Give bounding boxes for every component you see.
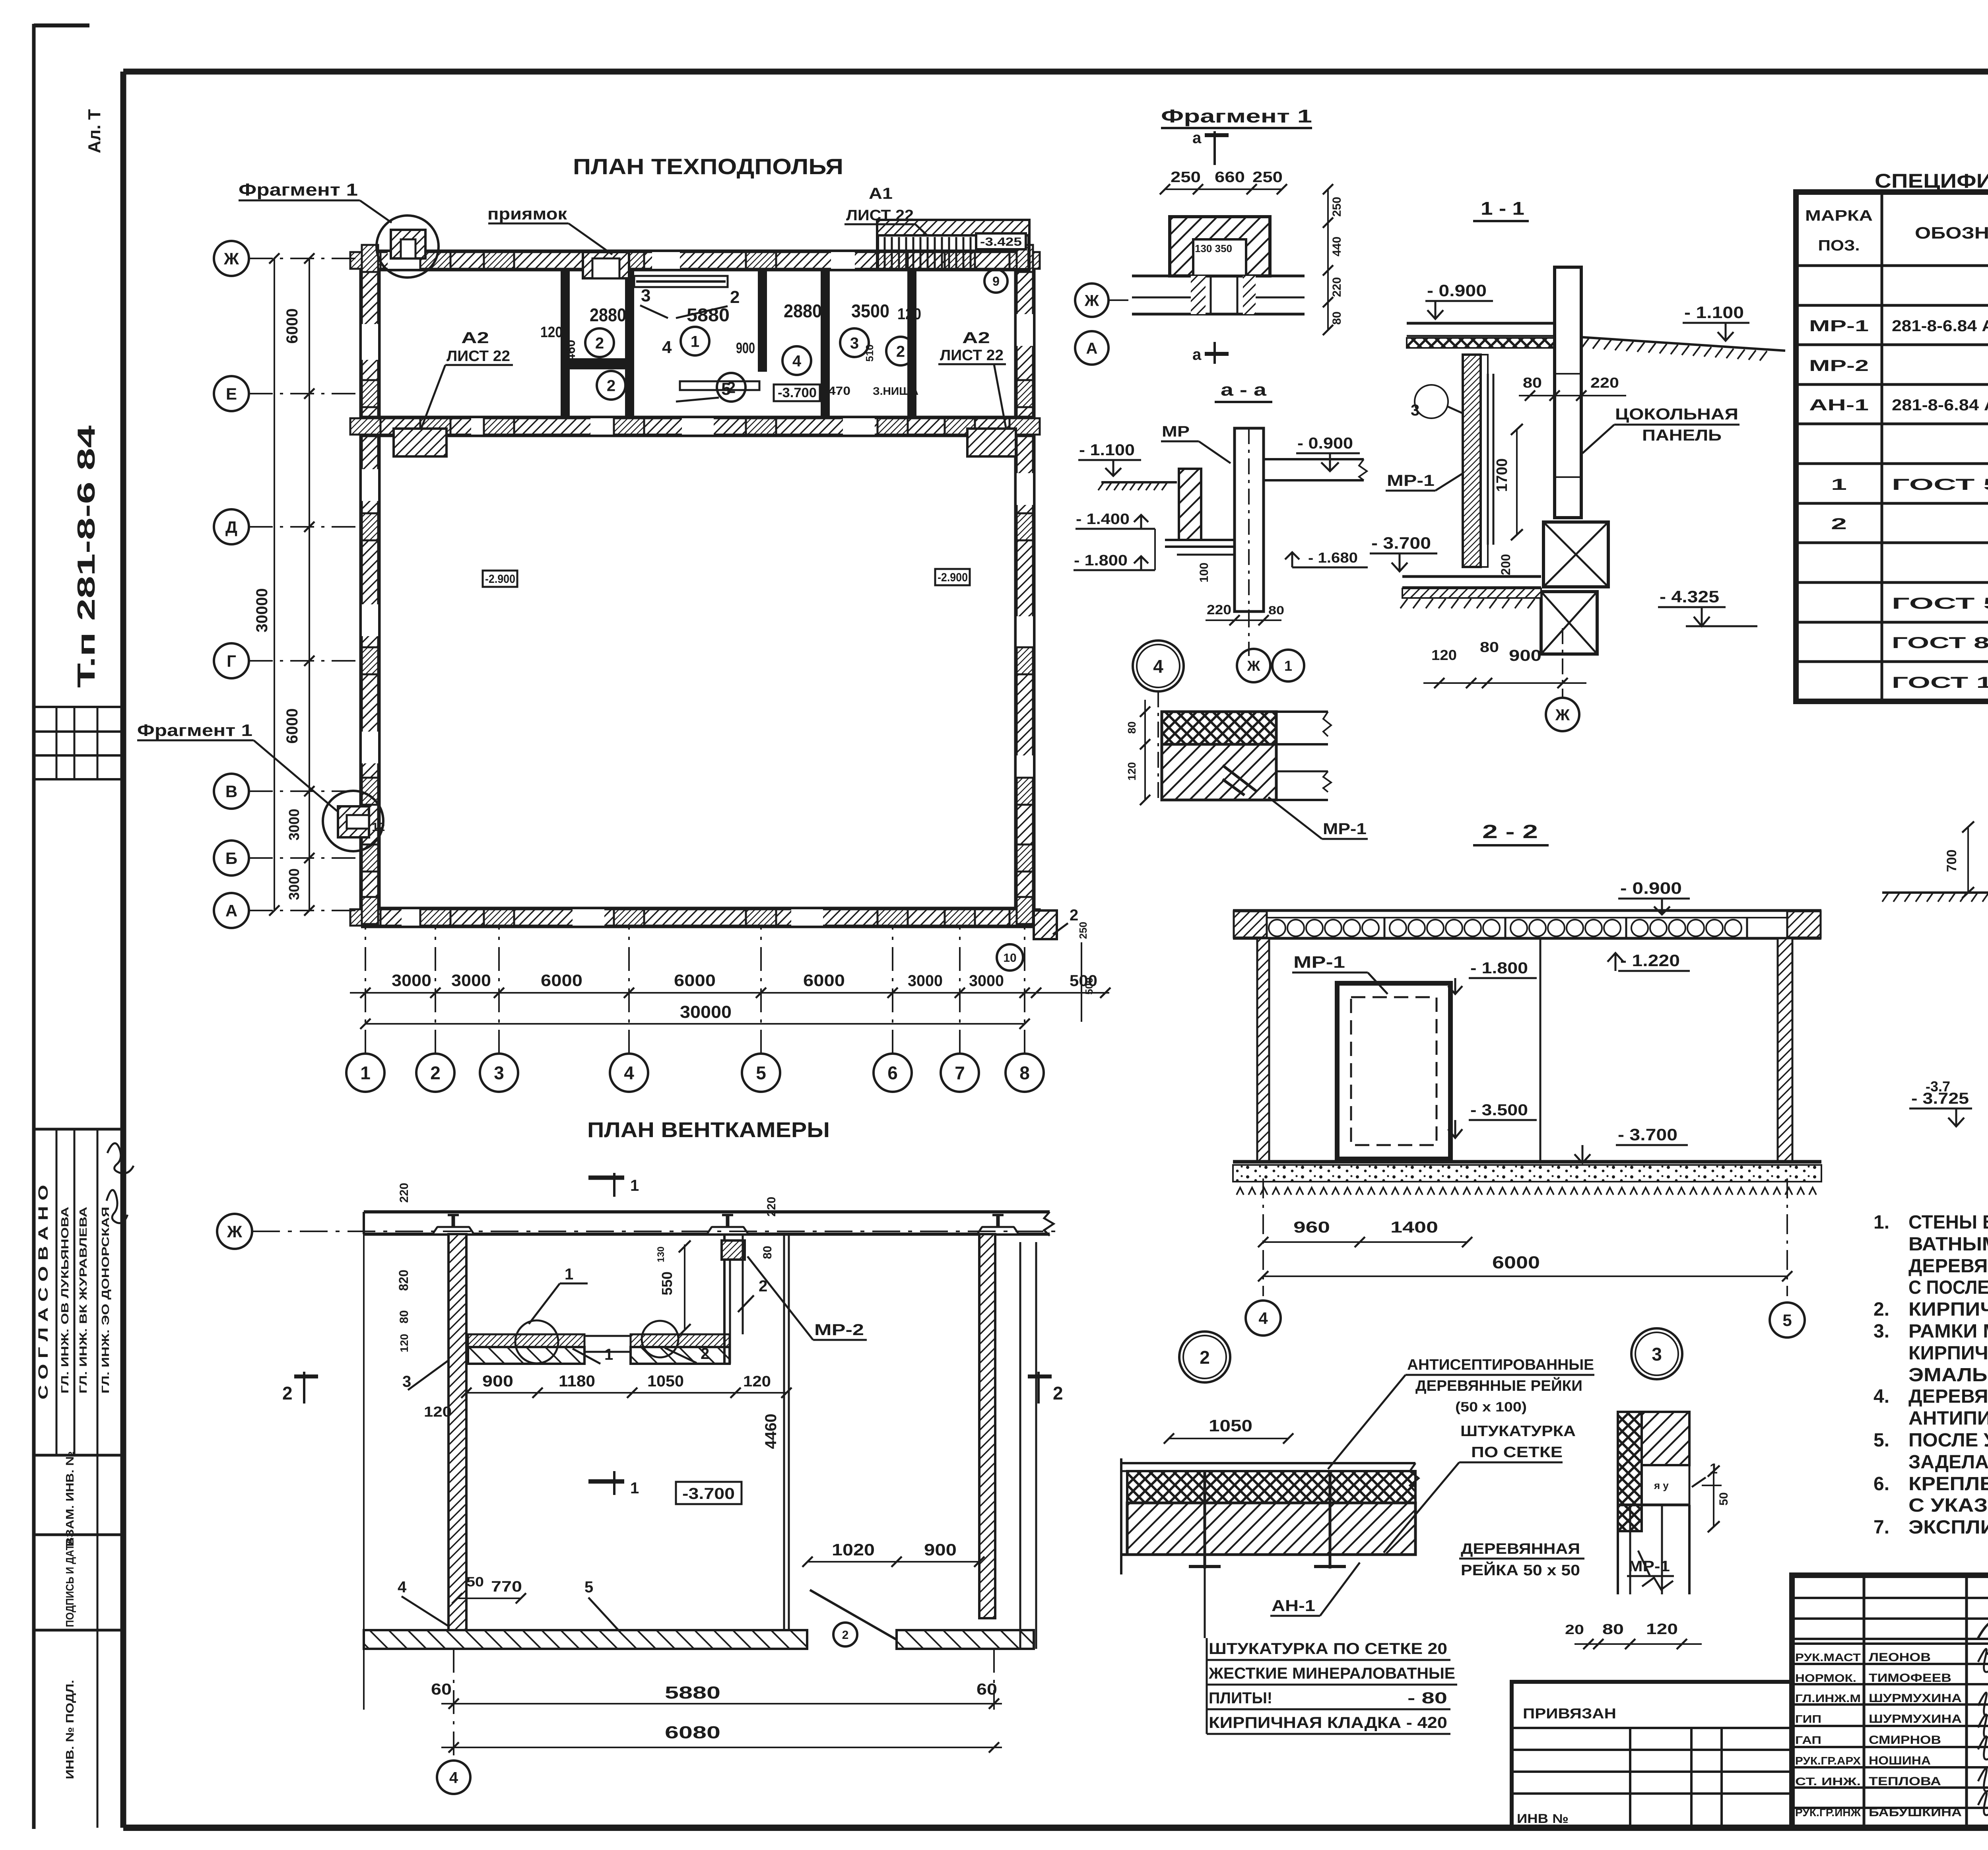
svg-text:3000: 3000 [908,972,943,990]
svg-text:2: 2 [701,1345,709,1363]
right rotated dims [1327,189,1329,330]
svg-text:4: 4 [398,1578,407,1596]
svg-text:80: 80 [761,1246,774,1259]
bottom dims [1206,619,1281,621]
svg-text:1 - 1: 1 - 1 [1481,198,1524,219]
svg-text:А: А [1086,340,1098,357]
svg-text:60: 60 [431,1681,452,1698]
svg-text:МР: МР [1162,423,1190,440]
svg-text:НОШИНА: НОШИНА [1869,1754,1931,1767]
svg-text:-3.700: -3.700 [778,385,817,400]
svg-text:1050: 1050 [1209,1416,1252,1435]
svg-text:900: 900 [736,340,755,357]
svg-text:ПЛАН ТЕХПОДПОЛЬЯ: ПЛАН ТЕХПОДПОЛЬЯ [573,154,843,179]
svg-text:10: 10 [1003,951,1016,965]
svg-text:80: 80 [1268,604,1284,617]
svg-text:5: 5 [721,379,731,399]
svg-text:6000: 6000 [1492,1253,1540,1272]
svg-text:470: 470 [828,384,850,398]
svg-text:- 1.220: - 1.220 [1620,951,1680,970]
svg-text:5.: 5. [1873,1430,1889,1451]
svg-text:МР-1: МР-1 [1293,953,1345,971]
walls [1257,938,1269,1162]
svg-text:1050: 1050 [647,1372,684,1390]
svg-text:А1: А1 [869,185,893,202]
svg-text:СТЕНЫ ВНУТРИ КАМЕРЫ ИЗОЛИРУ: СТЕНЫ ВНУТРИ КАМЕРЫ ИЗОЛИРУЮТСЯ ЖЕСТКИМИ… [1908,1212,1988,1233]
svg-text:а: а [1192,346,1202,363]
svg-text:ГАП: ГАП [1795,1734,1821,1746]
foundation blocks [1543,522,1608,587]
svg-text:ИНВ. № ПОДЛ.: ИНВ. № ПОДЛ. [64,1680,76,1779]
ground left [1882,891,1988,894]
svg-text:120: 120 [398,1334,410,1353]
svg-text:3500: 3500 [851,301,889,321]
left axis circles and dims [214,241,249,276]
svg-text:130 350: 130 350 [1195,243,1232,254]
svg-text:2: 2 [595,334,604,352]
svg-text:2: 2 [730,287,740,307]
svg-text:АНТИСЕПТИРОВАННЫЕ: АНТИСЕПТИРОВАННЫЕ [1407,1357,1594,1373]
bottom-right corner block [1034,910,1057,939]
svg-text:1: 1 [360,1063,371,1083]
svg-text:1020: 1020 [832,1540,875,1559]
svg-text:3000: 3000 [286,868,302,900]
floor slab right [1264,458,1364,460]
svg-text:- 3.700: - 3.700 [1618,1125,1677,1144]
svg-text:1: 1 [1831,476,1847,493]
svg-text:Ал. Т: Ал. Т [85,109,104,153]
svg-text:- 0.900: - 0.900 [1297,435,1353,452]
svg-text:ПОСЛЕ УСТАНОВКИ ОБОРУДОВАНИЯ: ПОСЛЕ УСТАНОВКИ ОБОРУДОВАНИЯ ЗАЗОРЫ ПРОЕ… [1908,1430,1988,1451]
svg-text:2880: 2880 [590,305,626,325]
floor [1233,1160,1821,1164]
svg-text:- 0.900: - 0.900 [1427,281,1487,300]
svg-text:1460: 1460 [563,340,578,368]
svg-text:5: 5 [1782,1311,1792,1330]
svg-text:РУК.ГР.ИНЖ: РУК.ГР.ИНЖ [1795,1806,1861,1819]
svg-text:КРЕПЛЕНИЕ УТЕПЛИТЕЛЯ ПРОИЗВО: КРЕПЛЕНИЕ УТЕПЛИТЕЛЯ ПРОИЗВОДИТЬ В СООТВ… [1908,1473,1988,1495]
svg-text:6: 6 [887,1063,898,1083]
svg-text:3: 3 [850,334,859,352]
svg-text:2: 2 [1070,907,1078,924]
svg-text:2: 2 [1200,1347,1210,1368]
svg-text:-2.900: -2.900 [938,571,968,584]
svg-text:- 3.725: - 3.725 [1911,1090,1969,1107]
svg-text:6000: 6000 [803,971,845,990]
stair blocks on axis E [394,429,447,456]
svg-text:Д: Д [225,518,237,536]
svg-text:ПАНЕЛЬ: ПАНЕЛЬ [1642,427,1722,444]
svg-text:6000: 6000 [674,971,716,990]
svg-text:2: 2 [607,377,615,394]
svg-text:2: 2 [282,1383,293,1404]
svg-text:900: 900 [924,1540,957,1559]
svg-text:МР-1: МР-1 [1809,317,1869,335]
svg-text:-2.900: -2.900 [485,573,515,586]
svg-text:ЭКСПЛИКАЦИЮ ОТВЕРСТИЙ СМ. Л: ЭКСПЛИКАЦИЮ ОТВЕРСТИЙ СМ. ЛИСТ 7 [1908,1516,1988,1538]
detail 4 callout [1133,641,1184,691]
svg-text:АН-1: АН-1 [1809,396,1869,414]
svg-text:А2: А2 [962,329,990,347]
svg-text:3000: 3000 [451,971,491,990]
hollow core slab band [1233,909,1821,912]
ground line left [1101,481,1177,483]
svg-text:1700: 1700 [1494,458,1510,492]
svg-text:Ж: Ж [1247,658,1260,674]
svg-text:С ПОСЛЕДУЮЩЕЙ ШТУКАТУРКОЙ ПО: С ПОСЛЕДУЮЩЕЙ ШТУКАТУРКОЙ ПО СЕТКЕ [1908,1276,1988,1298]
svg-text:а - а: а - а [1221,380,1267,400]
bottom axis circles and dims [346,1054,384,1092]
svg-text:БАБУШКИНА: БАБУШКИНА [1869,1806,1962,1819]
svg-text:6.: 6. [1873,1473,1889,1495]
svg-text:МР-2: МР-2 [814,1321,864,1339]
svg-text:РАМКИ МР УСТАНОВИТЬ ОДНОВРЕ: РАМКИ МР УСТАНОВИТЬ ОДНОВРЕМЕННО С КЛАДК… [1908,1320,1988,1342]
svg-text:ШУРМУХИНА: ШУРМУХИНА [1869,1712,1962,1726]
circled room numbers [585,328,614,357]
svg-text:220: 220 [1590,375,1619,391]
svg-text:ГОСТ 8486-66**: ГОСТ 8486-66** [1892,634,1988,652]
svg-text:КИРПИЧНЫХ СТЕН, ОГРУНТОВАТЬ: КИРПИЧНЫХ СТЕН, ОГРУНТОВАТЬ ЗА 2 РАЗА И … [1908,1343,1988,1364]
svg-text:4: 4 [792,352,802,370]
svg-text:ШУРМУХИНА: ШУРМУХИНА [1869,1692,1962,1705]
svg-text:120: 120 [897,305,921,323]
wall piers [350,252,381,269]
svg-text:80: 80 [1330,311,1343,324]
svg-text:6000: 6000 [283,709,301,744]
svg-text:ШТУКАТУРКА ПО СЕТКЕ 20: ШТУКАТУРКА ПО СЕТКЕ 20 [1209,1640,1447,1658]
svg-text:ЖЕСТКИЕ МИНЕРАЛОВАТНЫЕ: ЖЕСТКИЕ МИНЕРАЛОВАТНЫЕ [1208,1665,1455,1682]
svg-text:Т.п 281-8-6 84: Т.п 281-8-6 84 [73,425,100,688]
svg-text:1: 1 [1284,658,1292,674]
svg-text:ПОДПИСЬ И ДАТА: ПОДПИСЬ И ДАТА [64,1538,76,1627]
svg-text:ШТУКАТУРКА: ШТУКАТУРКА [1460,1423,1576,1440]
svg-text:2 - 2: 2 - 2 [1482,821,1538,842]
svg-text:Фрагмент 1: Фрагмент 1 [137,721,252,740]
svg-text:ГЛ. ИНЖ. ВК ЖУРАВЛЕВА: ГЛ. ИНЖ. ВК ЖУРАВЛЕВА [77,1207,89,1394]
level boxes [774,384,820,401]
svg-text:2: 2 [842,1629,849,1642]
svg-text:7: 7 [955,1063,965,1083]
svg-text:220: 220 [765,1197,778,1217]
svg-text:- 1.400: - 1.400 [1076,511,1130,528]
svg-text:5: 5 [756,1063,766,1083]
svg-text:Ж: Ж [1555,706,1570,724]
svg-text:50: 50 [1717,1492,1730,1505]
frame MR-1 [1337,983,1450,1159]
svg-text:МАРКА: МАРКА [1805,208,1873,224]
svg-text:СПЕЦИФИКАЦИЯ МАТЕРИАЛОВ НА: СПЕЦИФИКАЦИЯ МАТЕРИАЛОВ НА ВЕНТКАМЕРУ [1875,170,1988,192]
wall white gaps [388,252,423,269]
svg-text:ЗАДЕЛАТЬ БЕТОНОМ НА МЕЛКОМ: ЗАДЕЛАТЬ БЕТОНОМ НА МЕЛКОМ ЩЕБНЕ. [1908,1452,1988,1473]
svg-text:3000: 3000 [286,809,302,841]
interior dims [466,1392,786,1394]
svg-text:Е: Е [226,384,237,403]
svg-text:500: 500 [1083,977,1095,994]
svg-text:ТИМОФЕЕВ: ТИМОФЕЕВ [1869,1671,1951,1685]
svg-text:4: 4 [662,338,672,357]
svg-text:220: 220 [398,1183,411,1203]
svg-text:В: В [225,782,237,801]
svg-text:- 3.700: - 3.700 [1371,534,1431,552]
svg-text:З.НИША: З.НИША [873,385,918,397]
detail 2 drawing: floor slab with insulation [1121,1462,1415,1464]
svg-text:80: 80 [1602,1621,1624,1637]
svg-text:2: 2 [896,343,905,360]
svg-text:30000: 30000 [680,1002,732,1022]
svg-text:900: 900 [482,1372,513,1390]
svg-text:ВЗАМ. ИНВ. №: ВЗАМ. ИНВ. № [64,1451,76,1547]
sheet frame [32,24,36,1829]
svg-text:1: 1 [604,1346,613,1363]
svg-text:Фрагмент 1: Фрагмент 1 [239,180,358,200]
svg-text:1180: 1180 [559,1372,595,1390]
svg-text:2880: 2880 [784,301,822,321]
svg-text:Фрагмент 1: Фрагмент 1 [1161,106,1312,126]
svg-text:3000: 3000 [392,971,431,990]
svg-text:550: 550 [659,1272,675,1295]
svg-text:30000: 30000 [253,588,271,632]
svg-text:100: 100 [1198,563,1211,582]
svg-text:80: 80 [1126,721,1138,734]
svg-text:- 1.680: - 1.680 [1308,549,1358,566]
svg-text:6080: 6080 [665,1723,720,1742]
svg-text:ПРИВЯЗАН: ПРИВЯЗАН [1523,1705,1616,1722]
svg-text:АН-1: АН-1 [1272,1597,1315,1615]
svg-text:- 1.100: - 1.100 [1079,441,1135,459]
svg-text:1: 1 [691,333,699,350]
svg-text:660: 660 [1215,169,1245,186]
svg-text:ГОСТ 10140-80: ГОСТ 10140-80 [1892,674,1988,691]
svg-text:4: 4 [1258,1309,1268,1328]
axis circles [1075,283,1109,317]
svg-text:12: 12 [372,821,385,834]
axis Ж line and circle [252,1231,1058,1232]
svg-text:770: 770 [491,1578,522,1595]
hatched pit block [1170,217,1270,276]
svg-text:ЦОКОЛЬНАЯ: ЦОКОЛЬНАЯ [1615,406,1738,423]
svg-text:а: а [1192,129,1202,147]
svg-text:ГОСТ 5781-82: ГОСТ 5781-82 [1892,476,1988,493]
title block [1792,1575,1988,1828]
fragment circle at top [377,215,439,278]
svg-text:- 1.800: - 1.800 [1074,552,1128,569]
priyamok shaft [583,252,629,278]
svg-text:80: 80 [1480,639,1499,655]
svg-text:5: 5 [584,1578,593,1596]
svg-text:9: 9 [992,274,1000,289]
svg-text:ИНВ №: ИНВ № [1517,1811,1569,1826]
privyazan table [1512,1682,1792,1828]
svg-text:6000: 6000 [541,971,582,990]
svg-text:НОРМОК.: НОРМОК. [1795,1672,1856,1684]
detail 4 drawing: wall corner with insulation [1162,712,1276,744]
section marks 1 and 2 [613,1173,615,1197]
svg-text:4: 4 [624,1063,634,1083]
zokolnaya panel [1555,267,1581,518]
svg-text:Г: Г [227,652,236,670]
svg-text:20: 20 [1565,1622,1584,1637]
svg-text:МР-1: МР-1 [1323,820,1367,838]
svg-text:МР-1: МР-1 [1387,472,1435,489]
svg-text:250: 250 [1171,169,1201,186]
svg-text:Ж: Ж [1084,292,1099,309]
svg-text:7.: 7. [1873,1517,1889,1538]
svg-text:281-8-6.84 АС1 И2-03 00: 281-8-6.84 АС1 И2-03 00 [1892,396,1988,414]
svg-text:ГОСТ 5336-80: ГОСТ 5336-80 [1892,595,1988,612]
svg-text:ЛЕОНОВ: ЛЕОНОВ [1869,1651,1931,1664]
svg-text:МР-2: МР-2 [1809,357,1869,375]
building outer walls [361,251,1034,270]
svg-text:ГЛ. ИНЖ. ОВ ЛУКЬЯНОВА: ГЛ. ИНЖ. ОВ ЛУКЬЯНОВА [59,1207,71,1394]
svg-text:4: 4 [1153,656,1163,677]
svg-text:3: 3 [641,286,650,305]
svg-text:281-8-6.84 АС1. И2-04 00: 281-8-6.84 АС1. И2-04 00 [1892,317,1988,335]
svg-text:250: 250 [1330,197,1343,217]
detail 3 callout [1631,1328,1682,1379]
svg-text:ВАТНЫМИ ПЛИТАМИ ТОЛЩИНОЙ 40 М: ВАТНЫМИ ПЛИТАМИ ТОЛЩИНОЙ 40 ММ 8=300 КГ/… [1908,1233,1988,1255]
svg-text:440: 440 [1330,237,1343,256]
svg-text:ПО СЕТКЕ: ПО СЕТКЕ [1471,1444,1563,1461]
svg-text:РУК.МАСТ: РУК.МАСТ [1795,1651,1861,1664]
detail 2 callout [1179,1332,1230,1382]
svg-text:120: 120 [424,1404,452,1420]
svg-text:- 1.800: - 1.800 [1470,959,1528,977]
svg-text:6000: 6000 [283,309,301,344]
svg-text:700: 700 [1944,850,1959,872]
svg-text:- 4.325: - 4.325 [1660,587,1719,606]
svg-text:ЭМАЛЬЮ В ЧЕРНЫЙ ЦВЕТ (: ЭМАЛЬЮ В ЧЕРНЫЙ ЦВЕТ ( ПХВ-25 ЧЕРНАЯ ГОС… [1908,1364,1988,1386]
svg-text:3000: 3000 [969,972,1004,990]
svg-text:250: 250 [1077,922,1089,939]
svg-text:ЛИСТ 22: ЛИСТ 22 [447,348,510,365]
svg-text:-3.425: -3.425 [980,235,1022,248]
svg-text:ДЕРЕВЯННЫЕ РЕЙКИ: ДЕРЕВЯННЫЕ РЕЙКИ [1415,1376,1582,1394]
detail 3 drawing: wall corner [1618,1412,1642,1531]
svg-text:1: 1 [630,1479,639,1497]
svg-text:ПЛИТЫ!: ПЛИТЫ! [1209,1689,1272,1707]
svg-text:4: 4 [449,1769,458,1786]
svg-text:130: 130 [656,1246,666,1262]
svg-text:(50 х 100): (50 х 100) [1455,1400,1527,1415]
inner wall with insulation [1463,355,1481,567]
svg-text:5880: 5880 [665,1683,720,1702]
svg-text:СМИРНОВ: СМИРНОВ [1869,1734,1941,1747]
svg-text:220: 220 [1207,602,1231,617]
svg-text:900: 900 [1509,647,1541,664]
svg-text:3: 3 [1652,1344,1662,1365]
bottom dims [1263,1241,1467,1243]
ceiling slab band [364,1210,1050,1213]
svg-text:120: 120 [1646,1621,1678,1638]
svg-text:Ж: Ж [223,249,239,268]
wall band [1132,275,1305,278]
svg-text:120: 120 [540,324,563,341]
svg-text:80: 80 [398,1310,411,1323]
vent chamber walls [448,1234,466,1649]
svg-text:С О Г Л А С О В А Н О: С О Г Л А С О В А Н О [36,1185,51,1400]
svg-text:1400: 1400 [1390,1219,1438,1236]
svg-text:8: 8 [1019,1063,1030,1083]
ground line right [1582,337,1785,351]
svg-text:РУК.ГР.АРХ: РУК.ГР.АРХ [1795,1755,1861,1767]
svg-text:Ж: Ж [227,1222,243,1241]
svg-text:250: 250 [1252,169,1283,186]
svg-text:820: 820 [396,1270,411,1291]
svg-text:СТ. ИНЖ.: СТ. ИНЖ. [1795,1775,1861,1788]
svg-text:3: 3 [494,1063,504,1083]
svg-text:А2: А2 [461,329,489,347]
svg-text:1: 1 [565,1266,573,1283]
column [1235,428,1264,611]
interior partitions [561,270,570,417]
signatures [1978,1649,1988,1678]
svg-text:С УКАЗАНИЯМИ СЕРИИ , 2.290: С УКАЗАНИЯМИ СЕРИИ , 2.290-4 ВЫП.1 [1908,1495,1988,1516]
svg-text:ГЛ. ИНЖ. ЭО ДОНОРСКАЯ: ГЛ. ИНЖ. ЭО ДОНОРСКАЯ [99,1207,111,1394]
svg-text:50: 50 [466,1574,484,1590]
svg-text:КИРПИЧНАЯ КЛАДКА ИЗ КИРПИЧА: КИРПИЧНАЯ КЛАДКА ИЗ КИРПИЧА М75 НА РАСТВ… [1908,1299,1988,1320]
door and right dims [808,1561,979,1563]
svg-text:приямок: приямок [487,204,567,223]
svg-text:- 1.100: - 1.100 [1684,303,1744,322]
svg-text:4.: 4. [1873,1386,1889,1407]
svg-text:- 3.500: - 3.500 [1470,1101,1528,1119]
svg-text:3.: 3. [1873,1321,1889,1342]
svg-text:960: 960 [1293,1219,1330,1236]
svg-text:ЛИСТ 22: ЛИСТ 22 [846,207,914,224]
svg-text:- 0.900: - 0.900 [1620,879,1682,897]
svg-text:1: 1 [630,1177,639,1194]
svg-text:я у: я у [1654,1479,1669,1491]
svg-text:2: 2 [1053,1383,1063,1404]
svg-text:200: 200 [1499,554,1513,575]
svg-text:ЛИСТ 22: ЛИСТ 22 [940,347,1004,364]
staircase top right [878,220,1029,270]
svg-text:80: 80 [1523,375,1542,391]
svg-text:ДЕРЕВЯННОМУ КАРКАСУ НА ГВОЗД: ДЕРЕВЯННОМУ КАРКАСУ НА ГВОЗДЯХ И БИТУМНО… [1908,1255,1988,1277]
svg-text:ДЕРЕВЯННАЯ: ДЕРЕВЯННАЯ [1461,1541,1580,1557]
svg-text:120: 120 [743,1373,771,1390]
svg-text:ТЕПЛОВА: ТЕПЛОВА [1869,1775,1941,1788]
svg-text:ГИП: ГИП [1795,1713,1821,1725]
svg-text:ПОЗ.: ПОЗ. [1818,237,1860,254]
svg-text:А: А [225,901,237,920]
svg-text:ПЛАН ВЕНТКАМЕРЫ: ПЛАН ВЕНТКАМЕРЫ [587,1118,830,1142]
svg-text:ОБОЗНАЧЕНИЕ: ОБОЗНАЧЕНИЕ [1915,223,1988,242]
svg-text:-3.700: -3.700 [682,1485,735,1503]
svg-text:2.: 2. [1873,1299,1889,1320]
svg-text:ГЛ.ИНЖ.М: ГЛ.ИНЖ.М [1795,1692,1861,1704]
svg-text:Б: Б [225,849,237,868]
svg-text:120: 120 [1126,762,1138,781]
svg-text:120: 120 [1431,647,1457,663]
hatched wall piece [1179,469,1201,540]
svg-text:КИРПИЧНАЯ КЛАДКА - 420: КИРПИЧНАЯ КЛАДКА - 420 [1209,1714,1447,1732]
svg-text:220: 220 [1330,277,1343,297]
svg-text:ДЕРЕВЯННЫЙ КАРКАС ИЗ БРУСКО: ДЕРЕВЯННЫЙ КАРКАС ИЗ БРУСКОВ ПОДВЕРГНУТЬ… [1908,1385,1988,1407]
svg-text:АНТИПИРЕНАМИ, АНТИСЕПТИРОВАТЬ: АНТИПИРЕНАМИ, АНТИСЕПТИРОВАТЬ. [1908,1408,1988,1429]
svg-text:4460: 4460 [762,1414,780,1449]
svg-text:2: 2 [430,1063,441,1083]
floor slab [1407,322,1555,325]
svg-text:- 80: - 80 [1408,1689,1447,1707]
bottom dims [363,1234,365,1710]
svg-text:1.: 1. [1873,1212,1889,1233]
fragment circle at axis В [323,791,383,851]
svg-text:2: 2 [1831,515,1847,533]
svg-text:РЕЙКА 50 х 50: РЕЙКА 50 х 50 [1461,1561,1580,1579]
bottom floor slab [1402,575,1541,578]
